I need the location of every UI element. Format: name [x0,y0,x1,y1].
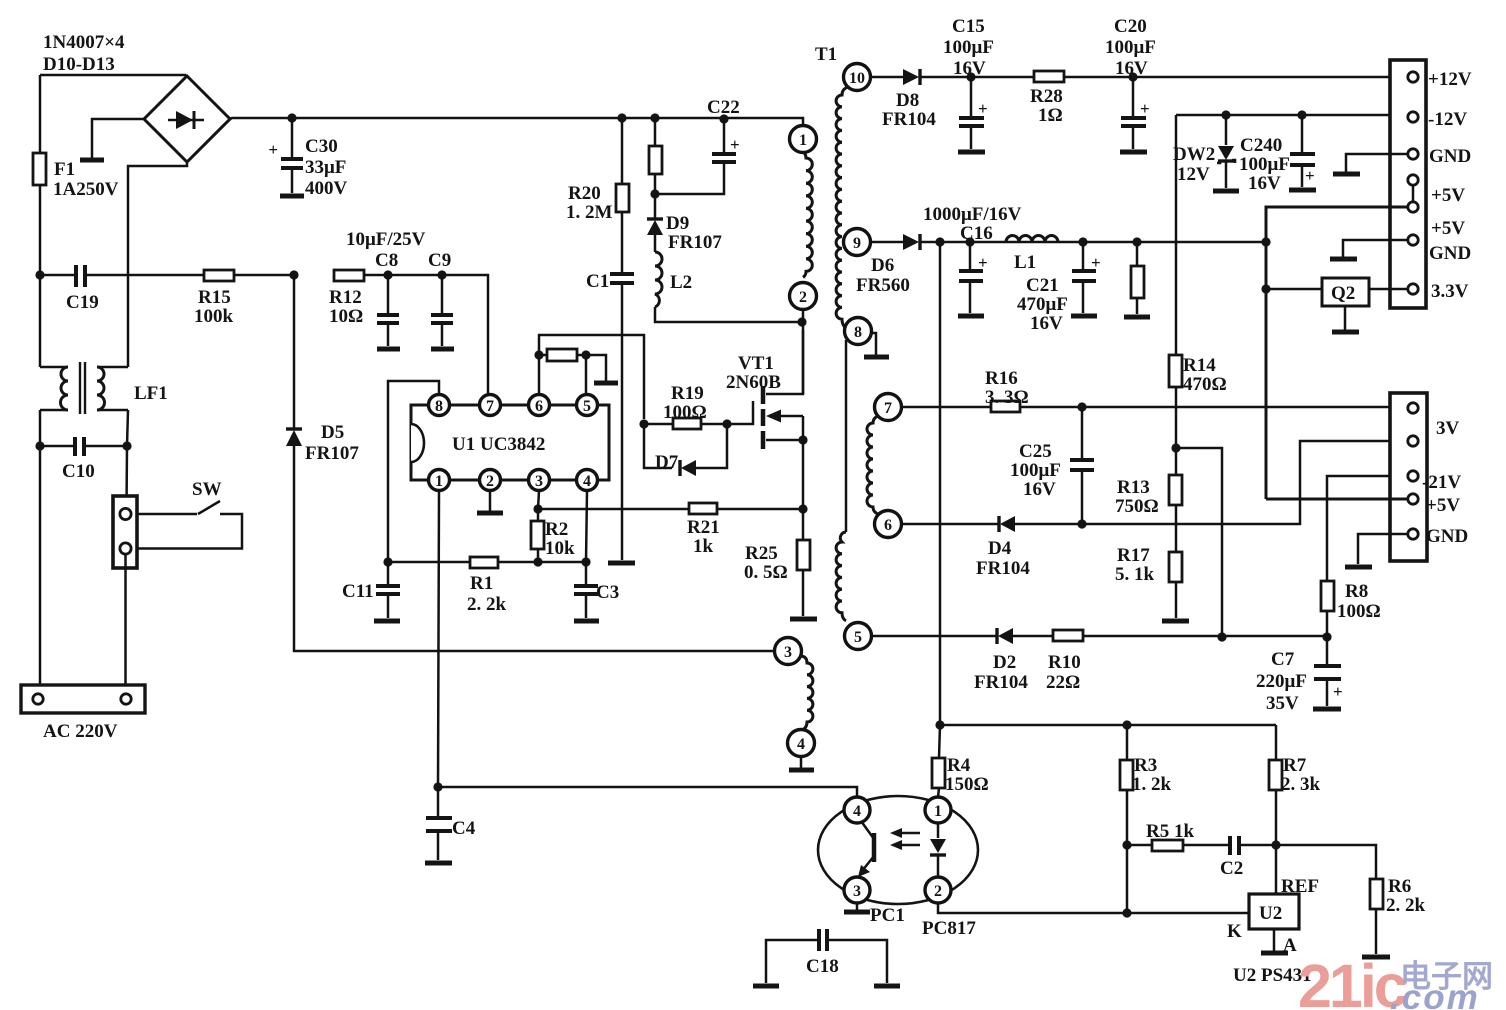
resistor R16 [991,401,1020,412]
junction C20 [1128,72,1137,81]
svg-text:C20: C20 [1114,16,1147,37]
label R5 1k [1146,821,1194,842]
label C30 value 400V [305,178,348,199]
resistor R8 [1321,476,1413,637]
resistor R4 [932,725,945,797]
label +12V [1428,69,1472,90]
svg-text:150Ω: 150Ω [945,774,989,795]
label C20 value 100uF [1105,37,1156,58]
svg-text:K: K [1227,921,1242,942]
label R20 value 1.2M [566,202,613,223]
wire node2 to drain junction [802,309,805,394]
ground Q2 [1332,306,1359,332]
label D4 value FR104 [976,558,1030,579]
PC1 light arrows [890,828,920,850]
svg-text:12V: 12V [1177,164,1210,185]
wire node 5 line [871,635,1327,638]
label C7 value 220uF [1256,671,1307,692]
svg-text:C25: C25 [1019,441,1052,462]
junction C16 [965,237,974,246]
wire D5 column [294,275,775,651]
svg-text:LF1: LF1 [134,383,168,404]
label R8 [1345,581,1368,602]
svg-text:C30: C30 [305,136,338,157]
label C30 [305,136,338,157]
snubber resistor above D9 [649,118,662,219]
label R16 [985,368,1018,389]
winding 7-6 [867,416,878,514]
svg-text:0. 5Ω: 0. 5Ω [744,562,788,583]
pin J2-2 [1408,436,1418,446]
ground bar DW2 [1213,189,1239,194]
svg-text:R10: R10 [1048,652,1081,673]
ground bar GND2 [1330,257,1357,262]
label REF [1281,876,1319,897]
wire pin 1 down to bottom rail [438,491,439,787]
junction C8 [383,270,392,279]
capacitor C3 [574,562,598,618]
wire top-left rail from fuse column to bridge top [40,74,186,77]
label R16 value 3.3ohm [985,387,1029,408]
svg-text:R20: R20 [568,183,601,204]
resistor R2 [531,509,544,562]
label R17 [1117,545,1150,566]
svg-text:GND: GND [1429,146,1471,167]
svg-text:R19: R19 [671,383,704,404]
resistor R25 [797,509,810,616]
label D4 [988,538,1012,559]
svg-text:100μF: 100μF [1105,37,1156,58]
ground bar C21 [1071,314,1097,319]
capacitor C2 [1230,836,1239,855]
PC1 pin 2 [925,877,951,903]
fuse F1 [33,75,46,273]
label R10 [1048,652,1081,673]
junction C22 top on HV rail [719,114,728,123]
svg-text:D9: D9 [666,213,689,234]
wire winding link 8 to lower winding [845,340,848,532]
resistor R17 [1169,552,1182,618]
ground bar C240 [1289,188,1316,193]
ground bar C11 [374,619,400,624]
svg-text:U1 UC3842: U1 UC3842 [452,434,545,455]
label F1 value 1A250V [53,179,119,200]
resistor R7 [1269,725,1282,845]
PC1 pin 1 [925,797,951,823]
svg-text:FR107: FR107 [305,443,359,464]
svg-text:+5V: +5V [1431,218,1465,239]
resistor R6 [1370,879,1383,954]
label C16 [960,223,993,244]
resistor R5 [1152,840,1183,851]
svg-text:R17: R17 [1117,545,1150,566]
svg-text:PC1: PC1 [870,905,905,926]
label R2 value 10k [545,538,575,559]
junction pin4/C3/R1 [581,557,590,566]
pin 5 [577,395,598,416]
label C25 value 16V [1023,479,1056,500]
svg-text:100μF: 100μF [1010,460,1061,481]
svg-text:470μF: 470μF [1017,294,1068,315]
winding 3-4 [800,656,813,730]
svg-text:2: 2 [799,289,807,306]
inductor L1 [1006,236,1058,243]
svg-text:+5V: +5V [1426,495,1460,516]
label C2 [1220,858,1243,879]
svg-text:C15: C15 [952,16,985,37]
label R4 [947,755,971,776]
junction R20 column on HV rail [617,113,626,122]
svg-text:100Ω: 100Ω [1337,601,1381,622]
svg-text:5: 5 [583,398,591,415]
resistor R15 [204,270,294,281]
wire VT1 source to R25 junction [802,440,805,509]
svg-text:F1: F1 [54,159,75,180]
svg-text:3: 3 [853,883,861,900]
wire Q2 input [1266,288,1322,291]
LF1 right winding [97,367,128,410]
label A [1283,935,1297,956]
wire REF junction to U2 [1275,845,1278,894]
label R8 value 100ohm [1337,601,1381,622]
transistor VT1 2N60B [763,330,803,449]
svg-text:R15: R15 [198,287,231,308]
svg-text:C19: C19 [66,292,99,313]
label C3 [596,582,619,603]
diode D6 [903,234,1266,250]
secondary winding to node 5 [836,532,846,621]
node 8 [845,318,872,345]
junction R21 line left [533,504,542,513]
bridge rectifier D10-D13 [144,76,230,162]
label GND J2 [1426,526,1468,547]
svg-text:2: 2 [934,883,942,900]
svg-text:3.3V: 3.3V [1431,281,1469,302]
junction VT1 source [798,435,807,444]
wire left AC column below fuse [39,275,42,367]
label D9 [666,213,689,234]
label L1 [1014,252,1036,273]
label C15 value 16V [953,58,986,79]
svg-text:C2: C2 [1220,858,1243,879]
svg-text:D5: D5 [321,422,344,443]
label R10 value 22ohm [1046,672,1080,693]
watermark 21ic.com [1298,952,1493,1010]
junction snubber column on HV rail [650,113,659,122]
svg-text:1A250V: 1A250V [53,179,119,200]
label 10uF/25V [346,229,426,250]
capacitor C7 [1314,637,1343,706]
ground bar GND1 [1333,172,1360,177]
label +5Va [1431,185,1465,206]
pin 8 [429,395,450,416]
svg-text:-21V: -21V [1422,472,1461,493]
svg-text:R21: R21 [687,517,720,538]
pin 1 [429,470,450,491]
label C240 value 100uF [1239,154,1290,175]
svg-text:10μF/25V: 10μF/25V [346,229,426,250]
capacitor C10 [40,437,127,456]
pin -21V [1408,471,1418,481]
junction C21 [1078,237,1087,246]
PC1 pin 3 [844,877,870,903]
svg-text:1. 2M: 1. 2M [566,202,613,223]
label 3.3V [1431,281,1469,302]
label C240 [1240,135,1282,156]
junction C30 on HV rail [287,113,296,122]
label R4 value 150ohm [945,774,989,795]
svg-text:16V: 16V [1030,313,1063,334]
svg-text:R16: R16 [985,368,1018,389]
secondary winding 10-9-8 [836,87,848,328]
ground node 4 [789,756,814,770]
svg-text:C21: C21 [1026,275,1059,296]
label R21 value 1k [693,536,714,557]
svg-text:SW: SW [192,479,222,500]
node 10 [844,64,871,91]
svg-text:100k: 100k [194,306,234,327]
ground bar C20 [1120,150,1147,155]
resistor R19 [673,418,701,429]
label R13 value 750ohm [1115,496,1159,517]
label DW2 [1173,144,1215,165]
label D5 [321,422,344,443]
svg-text:2N60B: 2N60B [726,372,781,393]
wire node 7 line to connector [901,406,1407,409]
label R25 value 0.5ohm [744,562,788,583]
label U1 UC3842 [452,434,545,455]
ground bar R25 [790,617,817,622]
capacitor C1 [610,274,634,560]
node 4 [788,730,815,757]
pin 3V [1408,403,1418,413]
svg-text:1: 1 [799,132,807,149]
svg-text:R12: R12 [329,287,362,308]
resistor R14 [1169,355,1182,475]
svg-text:FR560: FR560 [856,275,910,296]
svg-text:+: + [978,253,988,272]
label PC817 [922,918,976,939]
svg-text:1. 2k: 1. 2k [1132,774,1172,795]
capacitor C30 [0,0,303,193]
label D10-D13 [43,54,115,75]
label C7 [1271,649,1295,670]
label U2 PS431 [1233,965,1312,986]
ground bar C18 right [874,984,900,989]
junction feedback top left [935,720,944,729]
diode D8 [903,69,971,85]
label R14 [1183,355,1216,376]
label C25 [1019,441,1052,462]
ground bar C3 [574,619,599,624]
svg-text:D2: D2 [993,652,1016,673]
wire REF junction to R6 [1276,845,1376,879]
svg-text:VT1: VT1 [738,353,774,374]
label 1000uF/16V [923,204,1022,225]
svg-text:33μF: 33μF [305,157,346,178]
wire HV+ rail from bridge right corner to node 1 [230,118,803,125]
svg-text:10: 10 [849,70,865,87]
label R20 [568,183,601,204]
label C20 value 16V [1115,58,1148,79]
PC1 pin 4 [844,797,870,823]
pin 6 [529,395,550,416]
svg-text:3. 3Ω: 3. 3Ω [985,387,1029,408]
svg-text:3: 3 [535,473,543,490]
label R19 [671,383,704,404]
svg-text:3: 3 [784,644,792,661]
svg-text:AC 220V: AC 220V [43,721,118,742]
wire pin 8 to C11/R1 junction [388,381,439,558]
wire R1 line [388,561,586,564]
resistor R1 [470,557,498,568]
junction K line / R3 bottom [1122,908,1131,917]
capacitor C25 [1070,407,1094,524]
svg-text:8: 8 [435,398,443,415]
resistor R10 [1053,630,1083,641]
switch SW blade [137,501,242,549]
diode D5 [286,429,302,446]
capacitor C19 [40,265,204,287]
svg-text:R13: R13 [1117,477,1150,498]
svg-text:R1: R1 [470,573,493,594]
label C15 [952,16,985,37]
junction C10 left [35,441,44,450]
svg-text:-12V: -12V [1428,109,1467,130]
junction D6 out [935,237,944,246]
wire D6 junction down to feedback [939,242,942,725]
label C11 [342,581,374,602]
ground bar C18 left [753,984,779,989]
label C8 [375,250,398,271]
svg-text:Q2: Q2 [1331,283,1355,304]
label R15 value 100k [194,306,234,327]
wire node10 to D8 [871,76,903,79]
label R1 value 2.2k [467,594,507,615]
label DW2 value 12V [1177,164,1210,185]
label PC1 [870,905,905,926]
svg-text:FR104: FR104 [974,672,1028,693]
diode D2 [997,628,1013,644]
node 1 [790,126,817,153]
ground bar C9 [431,347,454,352]
label C240 value 16V [1248,173,1281,194]
wire bottom rail to PC1 pin4 [438,787,857,797]
AC 220V connector [21,685,145,713]
label R6 [1388,876,1411,897]
junction C19 line left [35,270,44,279]
diode D9 [647,219,663,252]
svg-text:5: 5 [854,629,862,646]
node 2 [790,283,817,310]
ground U2 anode [1261,929,1288,953]
junction C7 [1322,632,1331,641]
junction C15 [966,72,975,81]
junction C25 top [1077,402,1086,411]
label D8 [896,90,919,111]
pin 3.3V [1408,284,1418,294]
wire LF1 left bottom to AC connector [39,410,42,693]
svg-text:D7: D7 [655,452,679,473]
common-mode choke LF1 left winding [40,367,68,410]
diode D7 [680,460,696,476]
capacitor C16 [959,242,988,313]
label T1 [815,44,837,65]
svg-text:C9: C9 [428,250,451,271]
wire Q2 output to pin [1369,288,1407,291]
svg-text:4: 4 [583,473,591,490]
wire R3 bottom to K line [1126,845,1129,913]
label D5 value FR107 [305,443,359,464]
svg-text:35V: 35V [1266,693,1299,714]
svg-text:D8: D8 [896,90,919,111]
label 1N4007x4 [43,32,125,53]
ground bar R6 [1362,955,1390,960]
LF1 core [80,362,85,414]
svg-text:R7: R7 [1283,755,1307,776]
resistor R3 [1120,725,1133,845]
label R7 [1283,755,1307,776]
label R12 [329,287,362,308]
svg-text:8: 8 [854,324,862,341]
label D2 value FR104 [974,672,1028,693]
svg-text:+: + [730,135,740,154]
pin 5Va [1408,175,1418,201]
label GND1 [1429,146,1471,167]
svg-text:6: 6 [884,517,892,534]
label C21 value 470uF [1017,294,1068,315]
svg-text:L2: L2 [670,272,692,293]
svg-text:C7: C7 [1271,649,1295,670]
svg-text:R14: R14 [1183,355,1216,376]
svg-text:GND: GND [1426,526,1468,547]
wire -12V line [1176,115,1409,355]
connector J2 box [1390,393,1427,561]
svg-text:FR104: FR104 [882,109,936,130]
svg-text:220μF: 220μF [1256,671,1307,692]
junction R2 bottom on R1 line [533,557,542,566]
capacitor C240 [1290,115,1315,187]
ground bar C4 [425,861,452,866]
pin GND J2 [1358,529,1418,564]
ground bar C30 [280,194,304,199]
label R12 value 10ohm [329,306,363,327]
svg-text:R25: R25 [745,543,778,564]
pin 7 [480,395,501,416]
svg-text:D10-D13: D10-D13 [43,54,115,75]
junction D5 column on C19 line [289,270,298,279]
svg-text:R2: R2 [545,519,568,540]
primary winding 1-2 [803,152,812,277]
label R3 value 1.2k [1132,774,1172,795]
PC1 LED [930,823,946,877]
svg-text:R5 1k: R5 1k [1146,821,1194,842]
capacitor C15 [959,77,988,149]
svg-text:C1: C1 [586,271,609,292]
junction C25 bottom [1077,519,1086,528]
junction C10 right [122,441,131,450]
label R21 [687,517,720,538]
svg-text:FR104: FR104 [976,558,1030,579]
wire node 6 line [901,441,1407,524]
svg-text:+12V: +12V [1428,69,1472,90]
wire pin 4 down to C3 [586,491,587,562]
svg-text:+: + [268,140,278,159]
label D8 value FR104 [882,109,936,130]
PC1 phototransistor [858,821,874,877]
wire feedback top line [940,724,1276,727]
label LF1 [134,383,168,404]
